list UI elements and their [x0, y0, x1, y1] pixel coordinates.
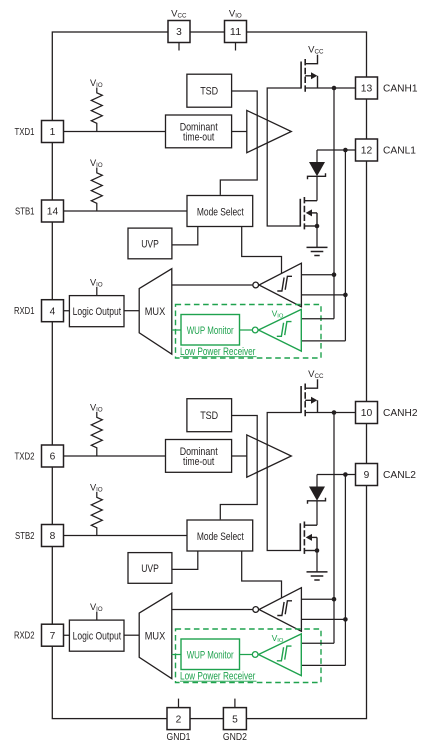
transistor high-side FET drain to V_CC (channel 1)	[305, 55, 317, 64]
svg-text:RXD2: RXD2	[14, 631, 35, 642]
pin 1 (TXD1) box	[42, 121, 64, 143]
pin 12 (CANL1) box	[356, 139, 378, 161]
svg-text:TSD: TSD	[200, 410, 218, 422]
svg-text:UVP: UVP	[141, 239, 159, 251]
svg-text:9: 9	[364, 470, 370, 481]
svg-text:Logic Output: Logic Output	[73, 631, 122, 643]
junction dot CANH (channel 2)	[332, 410, 337, 415]
wire Logic Output to MUX (channel 1)	[124, 310, 139, 312]
transistor low-side FET drain stub (channel 2)	[304, 524, 317, 526]
transistor low-side FET source stub (channel 2)	[304, 550, 317, 552]
transistor low-side FET drain stub (channel 1)	[304, 200, 317, 202]
diode (zener) cathode bar (channel 1)	[308, 173, 326, 179]
svg-text:time-out: time-out	[183, 456, 215, 468]
wire CANH internal bus (channel 2)	[333, 413, 335, 644]
wire TSD to Mode Select (channel 2)	[220, 416, 257, 520]
svg-text:Mode Select: Mode Select	[197, 206, 245, 218]
junction dot low-side FET source (channel 1)	[315, 224, 320, 229]
svg-text:14: 14	[47, 207, 59, 218]
svg-text:Logic Output: Logic Output	[73, 306, 122, 318]
svg-text:WUP Monitor: WUP Monitor	[187, 325, 234, 337]
wire diode to low-side FET drain (channel 1)	[316, 176, 318, 200]
wire RXD2 to Logic Output	[52, 634, 69, 636]
pin 2 (GND1) box	[167, 708, 190, 730]
wire Mode Select to receiver enable (channel 2)	[242, 551, 282, 598]
wire low power receiver to CANL bus (channel 1)	[301, 340, 345, 342]
receiver hysteresis symbol (channel 2)	[277, 602, 284, 616]
block Dominant time-out (channel 2)	[166, 440, 232, 473]
ground symbol (channel 1)	[307, 246, 328, 248]
svg-text:2: 2	[176, 714, 182, 725]
svg-text:6: 6	[50, 452, 56, 463]
wire WUP Monitor to low power receiver bubble (channel 1)	[240, 329, 253, 331]
svg-text:TXD2: TXD2	[15, 451, 35, 462]
block Logic Output (channel 2)	[69, 620, 124, 651]
stub below pin 11	[235, 43, 237, 51]
junction dot low-side FET source (channel 2)	[315, 548, 320, 553]
pin 9 (CANL2) box	[356, 464, 378, 486]
svg-text:Low Power Receiver: Low Power Receiver	[180, 670, 256, 682]
transistor low-side FET body arrow (channel 1)	[312, 212, 318, 214]
low power receiver triangle (channel 1)	[259, 309, 302, 351]
svg-text:GND2: GND2	[223, 732, 247, 743]
junction dot CANL (channel 2)	[343, 472, 348, 477]
svg-text:Low Power Receiver: Low Power Receiver	[180, 346, 256, 358]
stub above pin 2	[178, 699, 180, 708]
junction dot receiver CANL tap (channel 1)	[343, 293, 348, 298]
low power receiver output bubble (channel 1)	[252, 327, 258, 333]
wire low power receiver to CANH bus (channel 1)	[301, 318, 334, 320]
transistor high-side FET gate bar (channel 2)	[300, 386, 302, 413]
svg-text:CANL2: CANL2	[383, 470, 416, 481]
svg-text:WUP Monitor: WUP Monitor	[187, 650, 234, 662]
wire low power receiver to CANH bus (channel 2)	[301, 642, 334, 644]
svg-text:STB1: STB1	[15, 206, 35, 217]
pin 7 (RXD2) box	[42, 624, 64, 646]
svg-text:1: 1	[50, 127, 56, 138]
pin 14 (STB1) box	[42, 200, 64, 222]
resistor R-STB2	[91, 492, 102, 536]
wire MUX to WUP Monitor (channel 2)	[172, 654, 181, 656]
receiver triangle (channel 2)	[259, 588, 301, 632]
block UVP (channel 2)	[128, 553, 172, 584]
wire CANL pin to diode (channel 2)	[317, 474, 356, 476]
wire low-side FET source to ground (channel 2)	[316, 551, 318, 572]
wire diode to low-side FET drain (channel 2)	[316, 501, 318, 525]
block WUP Monitor (channel 1)	[181, 315, 240, 346]
block TSD (channel 2)	[187, 399, 232, 432]
wire Logic Output to MUX (channel 2)	[124, 634, 139, 636]
wire WUP Monitor to low power receiver bubble (channel 2)	[240, 654, 253, 656]
svg-text:CANH2: CANH2	[383, 408, 418, 419]
transistor low-side FET channel bar (channel 1)	[303, 197, 305, 229]
svg-text:TSD: TSD	[200, 86, 218, 98]
wire CANH internal bus (channel 1)	[333, 88, 335, 319]
wire CANL internal bus (channel 2)	[344, 475, 346, 666]
wire CANL pin to diode (channel 1)	[317, 149, 356, 151]
wire MUX to receiver (channel 2)	[172, 609, 253, 611]
block Mode Select (channel 2)	[187, 520, 253, 551]
wire low-side FET source to ground (channel 1)	[316, 226, 318, 247]
transistor high-side FET gate bar (channel 1)	[300, 62, 302, 89]
pin 8 (STB2) box	[42, 525, 64, 547]
svg-text:13: 13	[361, 84, 373, 95]
transistor high-side FET body arrow (channel 1)	[305, 75, 311, 77]
svg-text:MUX: MUX	[145, 630, 166, 642]
resistor R-TXD2	[91, 412, 102, 456]
svg-text:time-out: time-out	[183, 131, 215, 143]
wire TSD to Mode Select (channel 1)	[220, 91, 257, 195]
junction dot receiver CANH tap (channel 2)	[332, 597, 337, 602]
svg-text:STB2: STB2	[15, 531, 35, 542]
transistor low-side FET gate bar (channel 2)	[299, 523, 301, 551]
svg-text:MUX: MUX	[145, 306, 166, 318]
transistor low-side FET gate bar (channel 1)	[299, 199, 301, 227]
svg-text:8: 8	[50, 531, 56, 542]
wire TXD2 to Dominant time-out	[52, 455, 165, 457]
resistor R-STB1	[91, 168, 102, 212]
pin 6 (TXD2) box	[42, 445, 64, 467]
wire Mode Select to UVP (channel 1)	[172, 226, 198, 245]
block Logic Output (channel 1)	[69, 296, 124, 327]
receiver hysteresis symbol (channel 1)	[277, 278, 284, 292]
pin 3 (VCC) box	[168, 21, 190, 43]
diode (zener) anode triangle (channel 1)	[309, 162, 325, 176]
svg-text:CANL1: CANL1	[383, 146, 416, 157]
transistor high-side FET drain to V_CC (channel 2)	[305, 379, 317, 388]
svg-text:7: 7	[50, 631, 56, 642]
pin 5 (GND2) box	[223, 708, 246, 730]
driver amplifier triangle (channel 1)	[247, 110, 291, 152]
stub above pin 5	[234, 699, 236, 708]
wire STB1 to Mode Select	[52, 210, 187, 212]
wire Mode Select to receiver enable (channel 1)	[242, 226, 282, 273]
wire V_IO to Logic Output (channel 2)	[96, 612, 98, 621]
svg-text:Mode Select: Mode Select	[197, 531, 245, 543]
pin 13 (CANH1) box	[356, 77, 378, 99]
svg-text:11: 11	[230, 27, 242, 38]
transistor high-side FET body arrow (channel 2)	[305, 399, 311, 401]
mux MUX trapezoid (channel 1)	[139, 269, 172, 355]
outer device boundary	[52, 32, 366, 719]
wire MUX to receiver (channel 1)	[172, 284, 253, 286]
block TSD (channel 1)	[187, 74, 232, 107]
svg-text:UVP: UVP	[141, 563, 159, 575]
svg-text:CANH1: CANH1	[383, 84, 418, 95]
transistor low-side FET channel bar (channel 2)	[303, 522, 305, 554]
low power receiver hysteresis symbol (channel 1)	[277, 323, 284, 337]
underline Low Power Receiver (channel 2)	[180, 680, 257, 682]
wire MUX to WUP Monitor (channel 1)	[172, 329, 181, 331]
wire gate drive bus (channel 2)	[267, 413, 301, 551]
wire V_IO to Logic Output (channel 1)	[96, 287, 98, 296]
diode (zener) cathode bar (channel 2)	[308, 498, 326, 504]
ground symbol (channel 2)	[307, 571, 328, 573]
transistor high-side FET channel bar (channel 2)	[304, 384, 306, 417]
low power receiver hysteresis symbol (channel 2)	[277, 647, 284, 661]
wire Dominant time-out to driver (channel 1)	[232, 131, 247, 133]
wire high-side FET source to CANH pin (channel 1)	[305, 87, 356, 89]
underline Low Power Receiver (channel 1)	[180, 356, 257, 358]
receiver output bubble (channel 1)	[253, 282, 259, 288]
junction dot CANH (channel 1)	[332, 86, 337, 91]
wire receiver to CANH bus (channel 1)	[301, 274, 334, 276]
wire Mode Select to UVP (channel 2)	[172, 551, 198, 570]
receiver output bubble (channel 2)	[253, 607, 259, 613]
wire gate drive bus (channel 1)	[267, 88, 301, 226]
driver amplifier triangle (channel 2)	[247, 435, 291, 477]
diode (zener) anode triangle (channel 2)	[309, 487, 325, 501]
wire STB2 to Mode Select	[52, 535, 187, 537]
wire receiver to CANH bus (channel 2)	[301, 598, 334, 600]
pin 11 (VIO) box	[225, 21, 247, 43]
svg-text:5: 5	[232, 714, 238, 725]
svg-text:3: 3	[176, 27, 182, 38]
wire CANL internal bus (channel 1)	[344, 150, 346, 341]
junction dot receiver CANH tap (channel 1)	[332, 272, 337, 277]
low power receiver triangle (channel 2)	[259, 634, 302, 676]
junction dot receiver CANL tap (channel 2)	[343, 617, 348, 622]
transistor low-side FET source stub (channel 1)	[304, 225, 317, 227]
wire receiver to CANL bus (channel 1)	[301, 294, 345, 296]
transistor low-side FET body arrow (channel 2)	[312, 536, 318, 538]
pin 4 (RXD1) box	[42, 300, 64, 322]
svg-text:4: 4	[50, 306, 56, 317]
wire TXD1 to Dominant time-out	[52, 131, 165, 133]
svg-text:RXD1: RXD1	[14, 306, 35, 317]
block WUP Monitor (channel 2)	[181, 639, 240, 670]
wire high-side FET source to CANH pin (channel 2)	[305, 412, 356, 414]
junction dot CANL (channel 1)	[343, 148, 348, 153]
dashed box Low Power Receiver (channel 1)	[176, 305, 322, 359]
receiver triangle (channel 1)	[259, 263, 301, 307]
transistor high-side FET channel bar (channel 1)	[304, 59, 306, 92]
wire RXD1 to Logic Output	[52, 310, 69, 312]
wire low power receiver to CANL bus (channel 2)	[301, 664, 345, 666]
dashed box Low Power Receiver (channel 2)	[176, 629, 322, 683]
block Mode Select (channel 1)	[187, 196, 253, 227]
svg-text:GND1: GND1	[167, 732, 191, 743]
pin 10 (CANH2) box	[356, 402, 378, 424]
svg-text:12: 12	[361, 146, 373, 157]
mux MUX trapezoid (channel 2)	[139, 593, 172, 679]
wire receiver to CANL bus (channel 2)	[301, 618, 345, 620]
svg-text:10: 10	[361, 408, 373, 419]
stub below pin 3	[178, 43, 180, 51]
resistor R-TXD1	[91, 88, 102, 132]
block Dominant time-out (channel 1)	[166, 115, 232, 148]
wire Dominant time-out to driver (channel 2)	[232, 455, 247, 457]
block UVP (channel 1)	[128, 228, 172, 259]
low power receiver output bubble (channel 2)	[252, 652, 258, 658]
svg-text:TXD1: TXD1	[15, 127, 35, 138]
